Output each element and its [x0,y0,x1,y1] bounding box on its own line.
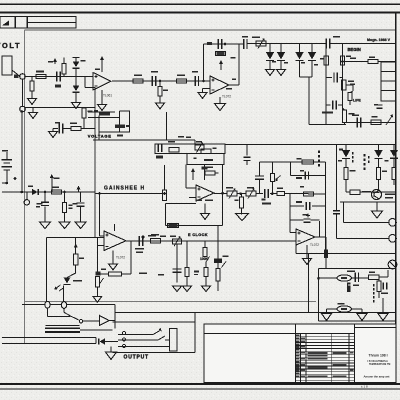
diode D3 [266,44,274,70]
resistor R17 [82,108,86,129]
ground G1 [28,99,37,105]
vcc arrow A4 [77,186,81,193]
ground G26 [75,222,86,229]
ground G8 [29,108,38,119]
title block top inner [355,327,397,329]
wire box drop [194,312,196,322]
vcc arrow A1 [48,58,57,64]
stage2 feedback box [203,44,239,85]
svg-text:BEGIN: BEGIN [348,47,361,52]
capacitor C19 [333,144,343,238]
potentiometer P7 [337,306,351,312]
wire U3 output [214,192,227,194]
resistor R2 [30,77,34,99]
label vertical spring [373,284,375,303]
potentiometer P9 [246,188,256,198]
battery B1 [2,150,13,183]
ground G3 [98,90,107,111]
resistor R41 [235,194,244,215]
diode D11 [374,144,382,167]
label 100K [200,257,209,261]
reverb box bottom [319,320,397,322]
resistor R8 [320,56,328,65]
junction circle out [79,320,82,323]
label marks W [350,84,355,85]
wire supply row [309,124,346,126]
label P9 value [247,187,254,189]
jack body [170,329,178,352]
label BEGIN [348,47,361,52]
node out A [45,301,50,316]
capacitor C2 [151,71,158,86]
reverb box top [319,268,397,270]
wire U4 inputs [97,192,104,245]
jack contact 3 [118,346,170,348]
capacitor C20 [244,144,251,165]
label VOLTAGE [88,134,112,139]
wire out low [46,324,80,326]
label R34 value [350,170,356,172]
vcc arrow U2 [219,60,223,70]
junction N2 [202,80,205,83]
svg-text:OUTPUT: OUTPUT [124,355,149,361]
wire gnd lines [2,338,96,344]
resistor R42 [277,192,285,196]
sheet top boundary [25,29,397,31]
vcc arrow A2 [50,174,60,192]
svg-text:100K: 100K [200,257,209,261]
pot chain bars [96,272,101,276]
schematic boundary left [24,30,26,344]
net mixer down [289,194,291,206]
wire reverb send row [346,191,350,193]
resistor R1 [36,74,46,78]
pot P6 vertical [270,162,280,194]
label D11 marks [364,154,389,170]
label marks row [142,235,177,239]
resistor R12 [201,148,217,154]
ground G25 [59,222,70,229]
ground G22 [106,347,117,360]
node J-IN-B [20,106,26,112]
wire lower main [2,191,96,193]
resistor R26 [203,241,210,262]
title block header line [204,333,355,335]
label C5 value [242,36,248,38]
junction N4 [237,192,246,195]
label R42 value [277,188,283,190]
label reverb a [347,271,355,273]
potentiometer P2 [195,142,204,152]
vcc arrow U1 [100,56,104,72]
wire mid rail [225,143,396,145]
reverb input [317,269,320,322]
label U5 [310,243,319,247]
ground G5 [198,89,210,99]
svg-text:E CLOCK: E CLOCK [188,233,208,237]
border right line [395,13,397,384]
label OUTPUT [124,355,149,361]
bus box marks [194,158,214,162]
wire buffer out [109,305,115,329]
capacitor C4 [207,39,222,49]
resistor R25 [185,241,189,286]
resistor R32 [342,108,346,122]
wire lower main right [96,193,165,195]
resistor R11 [169,148,179,152]
gain box left [186,165,196,189]
cap chain C25v [255,162,264,194]
title block outer [204,324,396,383]
wire to bus box [93,112,195,144]
wire U3 inputs [189,197,196,199]
svg-text:LIFE: LIFE [353,99,361,103]
wire reverb row [319,277,369,279]
wire to Q1 [379,270,388,277]
title block divider 2 [354,324,356,383]
revision box 3 [28,17,77,29]
feedback wire top [88,110,115,112]
potentiometer P3 [173,236,182,246]
diode D9 [99,338,118,344]
resistor R8b [340,56,351,66]
capacitor C3 [195,76,198,86]
wire row 128 [64,128,96,130]
wire jack to node [12,70,20,77]
wire gain node [164,165,166,190]
resistor R18 [74,254,84,265]
wire U5 in drop [295,241,297,254]
wire FX down [325,258,327,269]
label R24 value [223,256,229,258]
label C13 value [303,214,308,216]
svg-text:VOLT: VOLT [0,41,21,50]
wire U4 feedback [122,241,132,274]
capacitor C7 [326,73,342,83]
svg-text:I PJ IN AUTOHPLA: I PJ IN AUTOHPLA [368,360,389,363]
ground G9 [49,129,59,138]
title block divider 1 [295,324,297,383]
ladder rung 3 [290,193,326,195]
label U1 pin [95,69,100,70]
pot arrow chain [222,262,227,268]
label Q2 [385,194,395,199]
wire buffer feed [83,320,100,322]
border top thick line [0,11,400,13]
wire rail to R3 [63,58,65,77]
branch cap C22 [36,191,49,222]
feedback wire mid [88,117,119,119]
output jack box [113,322,196,353]
jack J2 [389,235,397,243]
capacitor C6 [326,36,340,49]
ground G14 [173,286,182,292]
junction battery [2,177,16,184]
wire clipper rail [239,43,326,46]
resistor R4 [133,75,143,84]
title text below [361,384,368,388]
ground G12 [196,200,213,220]
diode D1 [73,58,80,77]
capacitor C1 [55,72,61,88]
ground G21 [378,298,388,321]
node preamp out [24,192,29,205]
transistor Q2 [372,190,382,200]
title text line4 [364,375,390,379]
ground G27 [236,214,249,221]
title text line2 [368,360,389,363]
begin rail left [325,44,327,125]
wire jack1 [344,202,389,222]
node out B [61,302,66,309]
label R5 value [163,90,168,92]
ground G13 [215,97,226,111]
wire jack B down [21,79,24,192]
wire U4 output [126,240,296,242]
wire feedback tap [85,77,96,88]
resistor R43 [302,160,313,164]
resistor R20 [97,272,121,276]
junction N3 [21,191,24,194]
op-amp U4 [104,231,126,251]
resistor R10 [342,80,354,91]
label P8 value [226,187,233,189]
capacitor C8 [326,101,342,111]
svg-text:TL072: TL072 [310,243,319,247]
resistor R30 [369,275,380,279]
begin rail right [342,44,344,111]
capacitor C5 [224,39,247,49]
resistor R22 [168,223,179,227]
wire out diag [64,308,79,320]
capacitor C13 [304,219,311,222]
svg-text:TEMPERATURE TM: TEMPERATURE TM [369,363,390,366]
resistor R31 [377,278,381,298]
wire mixer row b [285,193,291,195]
ground G10 [93,296,102,302]
jack J1 [389,219,397,227]
label R17 value [88,111,93,113]
wire return right [352,309,363,314]
diode D4 [277,44,285,70]
svg-text:TL061: TL061 [103,94,112,98]
resistor R13 [99,112,110,115]
wire U5 out [315,237,326,250]
wire out row [22,304,115,306]
jack pins [122,331,125,347]
capacitor C12 [139,269,182,283]
diode D12 [390,144,398,167]
node J-IN-A [20,74,26,80]
wire mixer row a [256,193,263,195]
junction N5 [270,192,277,195]
wire input main [25,76,93,78]
wire row 107 [25,107,96,110]
label C3 value [192,71,198,73]
label C10 value [55,122,60,124]
diode D10 [342,144,350,167]
border top thin line [0,3,400,5]
resistor R37 [392,168,396,186]
ground G17 [303,245,312,265]
ground G7 [277,70,286,76]
led D8 [55,265,83,302]
vcc arrow A3 [74,238,78,255]
capacitor C18 [290,201,326,210]
resistor R3 [62,64,66,75]
svg-text:VOLTAGE: VOLTAGE [88,134,112,139]
ground G15 [183,286,192,292]
wire clipper rail right [331,43,397,45]
wire P3 stem [176,244,178,272]
resistor R36 [376,168,380,192]
op-amp U1 [93,73,111,91]
shield bar [45,327,80,333]
revision box 2 [16,17,28,29]
node bar FX [324,250,328,259]
label return pot [338,303,345,305]
resistor R21 [151,234,161,243]
jack contact 1 [118,328,162,335]
label CF [194,271,199,276]
resistor R16 [71,126,81,130]
resistor R15 [52,190,62,194]
ground G16 [202,286,211,292]
ground G2 [72,103,81,109]
wire shield link [80,329,113,331]
label ladder a [297,158,302,160]
title text line1 [369,354,388,358]
label P1 value [252,37,260,39]
ground G4 [156,103,165,109]
capacitor C9 [156,144,163,158]
ground G6 [266,70,275,76]
transistor Q1 [388,260,397,269]
capacitor C11 [135,236,144,253]
ground G11 [109,251,118,271]
svg-text:TL072: TL072 [116,255,125,259]
capacitor C24 [262,189,272,204]
wire reverb send right [360,191,396,193]
wire return left [327,309,338,314]
capacitor C10 [59,124,62,134]
capacitor C8c marks [374,104,383,108]
chain bar [214,226,222,264]
label R16 value [70,122,77,124]
resistor R29 [162,190,166,201]
resistor R7 [216,52,226,56]
title table entries [296,335,353,378]
label diode marks [301,62,318,66]
transformer T1 box [381,62,396,101]
resistor R27 [204,262,208,286]
label pot chain [101,269,106,271]
label R32 value [349,113,355,115]
label LIFE [353,99,361,103]
wire supply row2 [345,122,397,124]
label marks mid [117,134,191,138]
input jack body [2,56,12,75]
junction N1 [159,80,162,83]
buffer T2 [100,316,110,326]
resistor R5 [158,81,162,103]
wire out mid [47,316,70,318]
resistor R14 [115,124,130,128]
wire U5 fb loop [290,206,320,237]
op-amp U5 [296,229,315,245]
resistor R28 [205,167,219,176]
label R1 value [36,71,44,73]
jack contact 2 [118,336,170,340]
resistor R33 [371,120,381,124]
svg-text:Mogn. 1988 V: Mogn. 1988 V [367,38,391,42]
diode D7 [28,186,38,196]
svg-text:TL072: TL072 [222,95,231,99]
svg-text:GAINSHEE H: GAINSHEE H [104,186,145,192]
wire jack2 [337,237,389,239]
ground G18 [372,202,383,218]
label mark input [14,74,19,78]
label bus b [196,141,202,143]
wire bottom long [115,311,396,313]
diode D6 [308,44,316,78]
label U2 [222,95,231,99]
eclock box [166,204,223,226]
ladder right net [325,162,327,250]
resistor R6 [177,75,187,84]
bus stem [202,165,208,181]
ladder marks [300,170,310,218]
branch resistor R40 [63,191,73,222]
resistor R24 [216,263,220,291]
label R33 value [372,116,378,118]
label MAIN [322,112,333,114]
wire begin row1 [341,60,396,63]
capacitor C25 [305,172,308,180]
ladder rung 2 [291,162,326,179]
svg-text:± 1 8: ± 1 8 [361,384,368,388]
capacitor C14 [353,272,359,286]
title table grid [296,334,355,383]
svg-text:Thrum 198 I: Thrum 198 I [369,354,388,358]
schematic boundary lower [25,301,317,303]
ground G20 [357,314,367,321]
label U1 [103,94,112,98]
feedback box [99,111,130,133]
wire fx top loop [340,201,396,203]
wire U4 top stem [114,224,116,231]
wire FX send line [296,253,396,255]
border bottom thick line [0,383,400,385]
diode D2 [73,77,80,103]
ground G24 [40,222,51,229]
op-amp U3 [196,185,214,201]
ladder rung 1 [260,161,326,163]
ground G19 [322,314,332,321]
revision box 1 [0,17,15,29]
label E CLOCK [188,233,208,237]
label reverb b [369,272,375,274]
op-amp U2 [210,76,229,94]
label D10 marks [318,151,354,167]
diode D5 [295,44,309,78]
bus box upper [155,144,225,154]
resistor R19 pot [95,238,103,297]
capacitor C15 [381,283,388,295]
wire U2 output [229,84,239,86]
block boundary [46,238,104,303]
capacitor C17 [352,115,361,128]
